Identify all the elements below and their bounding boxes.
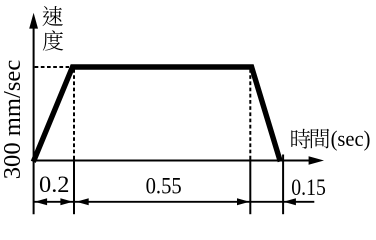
svg-text:0.2: 0.2 xyxy=(39,172,70,197)
extension line at t=0.75 xyxy=(249,161,251,214)
CJK 時 (time) xyxy=(291,129,310,149)
svg-text:(sec): (sec) xyxy=(331,126,371,151)
dim arrow left of 0.2 xyxy=(35,198,48,205)
x-axis xyxy=(34,160,310,162)
dim arrow left of 0.55 xyxy=(76,198,89,205)
CJK 間 xyxy=(311,129,329,149)
dim arrow right of 0.55 xyxy=(237,198,250,205)
CJK 度 xyxy=(43,30,63,50)
y-axis arrowhead xyxy=(29,13,38,29)
dim arrow left end of 0.15 xyxy=(283,198,296,205)
svg-text:300 mm/sec: 300 mm/sec xyxy=(0,60,26,180)
svg-text:0.55: 0.55 xyxy=(146,173,182,198)
dashed level line at 300 mm/sec xyxy=(35,66,69,68)
dim arrow right of 0.2 xyxy=(60,198,73,205)
x-axis arrowhead xyxy=(309,156,324,165)
svg-text:0.15: 0.15 xyxy=(291,175,326,200)
dashed drop line at t=0.2 xyxy=(73,69,75,160)
CJK 速 (speed) xyxy=(42,6,62,26)
dashed drop line at t=0.75 xyxy=(249,69,251,160)
extension line at t=0.9 xyxy=(282,155,284,215)
velocity profile trapezoid xyxy=(33,67,280,162)
dimension line xyxy=(34,201,315,203)
y-axis xyxy=(33,26,35,214)
extension line at t=0.2 xyxy=(73,161,75,214)
